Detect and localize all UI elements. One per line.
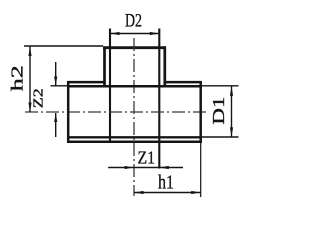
inner bottom extension to D1 (right): [202, 136, 239, 138]
run inner (socket bore) bottom line: [67, 136, 202, 138]
Z2 dimension line lower part (outside arrow pointing up): [55, 113, 57, 137]
branch centerline (vertical dash-dot): [133, 38, 135, 196]
inner top extension to D1 (right): [202, 85, 239, 87]
svg-text:D1: D1: [209, 97, 228, 125]
branch bore line right / D2 right extension / Z1 right extension (V4): [158, 29, 160, 169]
svg-text:Z1: Z1: [138, 148, 156, 168]
h2 dimension line: [29, 47, 31, 113]
right face: [199, 81, 202, 143]
Z1 dimension line (outside arrows): [108, 167, 134, 169]
svg-text:D2: D2: [125, 12, 142, 32]
run centerline (horizontal dash-dot): [25, 111, 207, 113]
svg-text:h1: h1: [158, 172, 174, 194]
branch face extension line to left (h2 top extension): [24, 45, 103, 47]
branch right wall: [163, 46, 166, 87]
h1 left arrow: [134, 191, 143, 194]
branch face (top): [103, 46, 166, 49]
inner top extension to left (Z2 top extension): [51, 85, 68, 87]
run outer top line (right segment): [164, 81, 202, 84]
D1 dimension line: [231, 86, 233, 137]
D1 top arrow: [230, 87, 233, 96]
run outer top line (left segment): [67, 81, 106, 84]
D2 dimension line: [110, 33, 159, 35]
svg-text:h2: h2: [8, 65, 27, 91]
run outer bottom line: [67, 141, 202, 144]
h2 bottom arrow: [28, 103, 31, 112]
h2 top arrow: [28, 47, 31, 56]
left face (socket mouth): [67, 81, 70, 143]
right face extension down (h1 right extension): [200, 143, 202, 197]
svg-text:Z2: Z2: [32, 88, 47, 108]
Z2 dimension line upper part (outside arrow pointing down): [55, 62, 57, 86]
h1 dimension line: [134, 192, 201, 194]
D1 bottom arrow: [230, 127, 233, 136]
h1 right arrow: [191, 191, 200, 194]
D2 left arrow: [110, 32, 119, 35]
branch bore line left / D2 left extension (V2): [109, 29, 111, 143]
D2 right arrow: [150, 32, 159, 35]
run inner (socket bore) top line: [67, 85, 202, 88]
branch left wall: [103, 46, 106, 87]
